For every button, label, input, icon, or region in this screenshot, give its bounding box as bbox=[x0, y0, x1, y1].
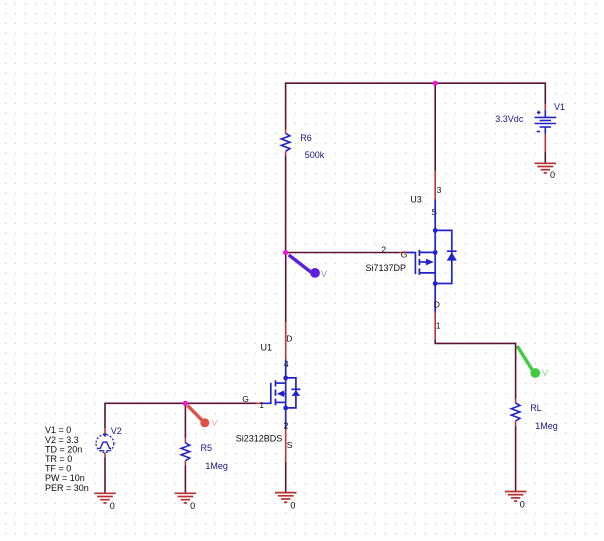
resistor R6 bbox=[281, 133, 290, 151]
svg-text:3: 3 bbox=[437, 185, 442, 195]
svg-text:0: 0 bbox=[190, 501, 195, 511]
V2 polarity arrow bbox=[103, 433, 107, 437]
wire U3 source from rail bbox=[434, 83, 436, 171]
pin 3 U3 source red segment bbox=[434, 171, 436, 200]
svg-text:S: S bbox=[431, 207, 437, 217]
pin 4 U1 drain red segment bbox=[285, 322, 287, 360]
svg-text:TF = 0: TF = 0 bbox=[45, 464, 71, 474]
svg-text:PER = 30n: PER = 30n bbox=[45, 483, 89, 493]
U1 body diode arrow bbox=[292, 390, 301, 396]
svg-text:U3: U3 bbox=[410, 195, 422, 205]
svg-text:Si7137DP: Si7137DP bbox=[366, 263, 407, 273]
svg-text:V2 = 3.3: V2 = 3.3 bbox=[45, 435, 79, 445]
ground 0 at U1 source bbox=[275, 493, 297, 503]
wire U3 gate from node A bbox=[286, 252, 400, 254]
op U3 pmos transistor bbox=[407, 200, 457, 313]
svg-text:0: 0 bbox=[520, 500, 525, 510]
svg-text:1Meg: 1Meg bbox=[535, 421, 558, 431]
U3 junction dot mid bbox=[433, 250, 438, 255]
svg-text:V2: V2 bbox=[111, 426, 122, 436]
node B junction bbox=[183, 401, 188, 406]
U1 junction dot top bbox=[283, 376, 288, 381]
source V1 battery bbox=[535, 110, 557, 134]
U3 body diode arrow bbox=[447, 252, 457, 260]
wire RL to ground bbox=[515, 426, 517, 492]
wire V2 to ground bbox=[104, 458, 106, 494]
svg-text:0: 0 bbox=[550, 170, 555, 180]
svg-text:V: V bbox=[542, 368, 548, 378]
pin R6 top red bbox=[285, 129, 287, 134]
pin 2 U3 gate red segment bbox=[400, 252, 407, 254]
wire R5 from node B bbox=[184, 403, 186, 438]
ground 0 at V2 bbox=[94, 493, 116, 503]
svg-text:3.3Vdc: 3.3Vdc bbox=[495, 114, 524, 124]
wire U1 drain from node A bbox=[285, 253, 287, 323]
wire R5 to ground bbox=[184, 466, 186, 494]
wire R6 bottom to node A bbox=[285, 156, 287, 253]
wire RL top bbox=[515, 343, 517, 399]
pin RL bottom red bbox=[515, 421, 517, 426]
svg-text:0: 0 bbox=[290, 501, 295, 511]
pin V1 plus lead red bbox=[544, 104, 546, 111]
pin V2 plus lead red bbox=[104, 428, 106, 435]
wire V1 to ground bbox=[544, 152, 546, 163]
U1 gate arrow bbox=[277, 390, 284, 397]
node top junction bbox=[433, 81, 438, 86]
svg-text:1Meg: 1Meg bbox=[205, 461, 228, 471]
pin V1 minus lead red bbox=[544, 134, 546, 152]
svg-text:500k: 500k bbox=[305, 150, 325, 160]
svg-text:R6: R6 bbox=[300, 133, 312, 143]
svg-text:Si2312BDS: Si2312BDS bbox=[236, 434, 283, 444]
svg-text:U1: U1 bbox=[261, 343, 273, 353]
svg-text:RL: RL bbox=[530, 403, 542, 413]
op U1 nmos transistor bbox=[262, 360, 300, 430]
wire R6 top bbox=[285, 82, 287, 129]
svg-text:TR = 0: TR = 0 bbox=[45, 454, 72, 464]
wire node B to U1 gate bbox=[185, 402, 256, 404]
wire V2 top corner to node B bbox=[105, 403, 185, 428]
pin 1 U1 gate red segment bbox=[256, 402, 262, 404]
ground 0 at V1 bbox=[535, 163, 557, 173]
V2 parameter text bbox=[45, 425, 89, 493]
svg-text:V1: V1 bbox=[554, 102, 565, 112]
svg-text:2: 2 bbox=[284, 421, 289, 431]
probe V purple at node A bbox=[289, 255, 327, 279]
svg-text:G: G bbox=[401, 250, 408, 260]
pin 1 U3 drain red segment bbox=[434, 313, 436, 342]
pin R6 bottom red bbox=[285, 151, 287, 156]
U3 gate arrow bbox=[426, 259, 434, 266]
probe V red at node B bbox=[188, 405, 218, 427]
svg-text:PW = 10n: PW = 10n bbox=[45, 473, 85, 483]
svg-text:R5: R5 bbox=[201, 443, 213, 453]
svg-text:1: 1 bbox=[259, 400, 264, 410]
svg-text:V: V bbox=[321, 269, 327, 279]
node A junction bbox=[283, 250, 288, 255]
svg-text:V1 = 0: V1 = 0 bbox=[45, 425, 71, 435]
svg-text:D: D bbox=[434, 300, 440, 310]
svg-text:S: S bbox=[287, 440, 293, 450]
pin V2 minus lead red bbox=[104, 452, 106, 457]
svg-text:2: 2 bbox=[381, 245, 386, 255]
U3 junction dot bottom bbox=[433, 281, 438, 286]
pin R5 bottom red bbox=[184, 461, 186, 466]
wire top rail bbox=[286, 82, 546, 84]
svg-text:D: D bbox=[286, 334, 292, 344]
pin RL top red bbox=[515, 399, 517, 404]
U1 junction dot bottom bbox=[283, 406, 288, 411]
svg-text:G: G bbox=[242, 394, 249, 404]
source V2 pulse bbox=[96, 435, 114, 453]
probe V green at RL node bbox=[517, 346, 548, 378]
U3 junction dot top bbox=[433, 228, 438, 233]
pin 2 U1 source red segment bbox=[285, 429, 287, 462]
svg-text:TD = 20n: TD = 20n bbox=[45, 444, 82, 454]
svg-text:0: 0 bbox=[110, 501, 115, 511]
ground 0 at RL bbox=[505, 492, 527, 502]
wire V1 branch bbox=[544, 82, 546, 104]
pin R5 top red bbox=[184, 438, 186, 443]
ground 0 at R5 bbox=[175, 493, 197, 503]
wire U1 source to ground bbox=[285, 462, 287, 493]
svg-text:1: 1 bbox=[436, 321, 441, 331]
resistor RL bbox=[511, 403, 520, 421]
svg-text:V: V bbox=[212, 418, 218, 428]
wire U3 drain corner to RL bbox=[435, 340, 515, 343]
resistor R5 bbox=[181, 443, 190, 461]
